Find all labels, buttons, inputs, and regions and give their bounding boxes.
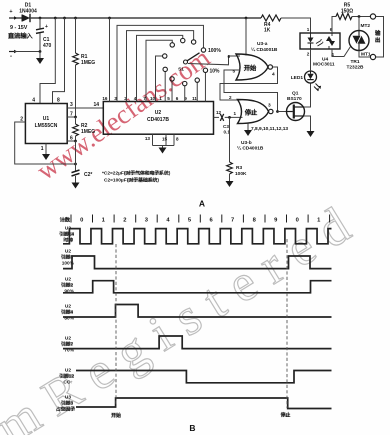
svg-text:引脚4: 引脚4 (61, 309, 74, 316)
wire R5 to output terminal (352, 16, 371, 18)
svg-text:13: 13 (145, 136, 151, 141)
svg-text:U2: U2 (65, 368, 71, 374)
ground U1 pin1 (42, 154, 50, 160)
wire Q1 drain up to LED1 (304, 83, 311, 107)
ground U2 bottom (162, 146, 164, 148)
counter U2 CD4017B box (103, 102, 213, 135)
svg-text:5: 5 (232, 69, 235, 74)
svg-text:开始: 开始 (111, 412, 121, 419)
resistor R2 1MEG (75, 117, 77, 124)
svg-text:直流输入: 直流输入 (8, 32, 34, 40)
svg-text:A: A (199, 199, 205, 209)
svg-text:*C2=22µF: *C2=22µF (102, 171, 124, 177)
wire U2 pin5 to contact G (171, 81, 173, 101)
svg-text:S1: S1 (178, 67, 184, 73)
svg-text:0: 0 (80, 218, 83, 224)
count header label (62, 218, 70, 222)
wire down to triac MT2 (358, 17, 360, 31)
node rail-U2pin16 (108, 17, 111, 20)
svg-text:2: 2 (307, 52, 310, 57)
svg-text:3: 3 (70, 102, 73, 108)
resistor R3 100K (229, 117, 231, 162)
wire U2 pin1 to contact F (164, 72, 166, 102)
timing waveform U2 pin3 100% (63, 256, 332, 269)
svg-text:MT2: MT2 (361, 23, 371, 29)
svg-text:(对于基础系统): (对于基础系统) (127, 177, 159, 184)
wire C3 to stop-gate input node (225, 116, 243, 118)
wire U2 pin7 to switch contact D (146, 40, 172, 101)
svg-text:输: 输 (375, 29, 381, 37)
dashed marker line stop count0 (286, 239, 288, 408)
svg-text:LM555CN: LM555CN (35, 123, 58, 129)
wire U3-b output feedback to U3-a input 5 (224, 70, 278, 112)
svg-text:7: 7 (70, 112, 73, 118)
svg-text:7,8,9,10,11,12,13: 7,8,9,10,11,12,13 (251, 126, 288, 132)
svg-text:出: 出 (375, 36, 381, 44)
LED LED1 (305, 71, 317, 83)
wire U3-a output feedback to U3-b input 2 (220, 67, 278, 100)
node rail-U3a supply (245, 17, 248, 20)
node rail-pin4 (54, 17, 57, 20)
svg-text:¼ CD4001B: ¼ CD4001B (237, 145, 264, 152)
svg-text:4: 4 (272, 72, 275, 78)
svg-text:U3-a: U3-a (257, 41, 268, 47)
svg-text:8: 8 (57, 98, 60, 104)
svg-text:5: 5 (167, 96, 170, 101)
capacitor C2 (see note) (72, 170, 80, 176)
svg-text:1K: 1K (264, 28, 271, 34)
wire U2 pin11 to contact J 10% (204, 73, 206, 102)
svg-text:C2=100µF: C2=100µF (104, 178, 127, 184)
svg-text:11: 11 (192, 96, 197, 101)
wire rail left to D1 (14, 17, 22, 19)
svg-text:U2: U2 (65, 249, 71, 255)
svg-text:1: 1 (307, 27, 310, 32)
timing waveform U3 pin3 duty factor (76, 398, 332, 409)
node C1-neg junction (39, 50, 42, 53)
svg-text:Q1: Q1 (292, 91, 299, 97)
output bracket and label (376, 17, 384, 58)
svg-text:6: 6 (227, 54, 230, 59)
wire negative terminal to C1 bottom (14, 51, 40, 53)
timing waveform U2 pin12 carry out (76, 371, 332, 383)
svg-text:(对于气体和电子系统): (对于气体和电子系统) (124, 170, 171, 177)
capacitor C3 0.1 (220, 114, 223, 121)
svg-text:引脚3: 引脚3 (61, 400, 74, 407)
svg-text:MOC3011: MOC3011 (313, 62, 335, 68)
resistor R5 150ohm (336, 14, 352, 20)
wire rail to U1 pin 8 (53, 18, 65, 104)
ground below C1 (39, 52, 41, 59)
svg-text:R3: R3 (236, 165, 242, 171)
svg-text:¼ CD4001B: ¼ CD4001B (251, 46, 278, 53)
svg-text:U2: U2 (65, 277, 71, 283)
terminal - DC input negative (9, 51, 14, 53)
svg-text:1: 1 (41, 146, 44, 152)
U4 internal triac (326, 36, 335, 46)
ground Q1 source (307, 131, 315, 137)
wire rail to U2 pin 16 (109, 18, 111, 102)
U4 internal LED (308, 38, 314, 43)
wire wiper to U3-a input 6 (188, 56, 240, 65)
node rail-pin8 (63, 17, 66, 20)
wire R4 to U4 pin1 (281, 18, 311, 33)
terminal + DC input positive (9, 17, 14, 19)
svg-text:U3: U3 (65, 395, 71, 401)
svg-text:CD4017B: CD4017B (147, 117, 169, 123)
wire top power rail (31, 17, 261, 19)
wire U2 pin12 to C3 (214, 116, 220, 118)
svg-text:占空因子: 占空因子 (56, 406, 75, 413)
label start below rise (112, 414, 120, 418)
wire U1 pin 6 to node (67, 140, 75, 142)
svg-text:0: 0 (296, 218, 299, 224)
svg-text:-: - (10, 54, 12, 60)
svg-text:U1: U1 (43, 116, 50, 122)
triac TR1 T2322B (349, 31, 369, 51)
svg-text:150Ω: 150Ω (341, 9, 353, 15)
watermark red www.elecfans.com diagonal (31, 42, 215, 186)
count header ticks and numbers (71, 215, 330, 223)
wire rail to U1 pin 4 (40, 18, 55, 104)
svg-text:9 - 15V: 9 - 15V (10, 25, 28, 31)
svg-text:10: 10 (150, 96, 156, 101)
diode D1 1N4004 (22, 15, 30, 22)
svg-text:BS170: BS170 (287, 96, 302, 102)
svg-text:C2*: C2* (84, 172, 92, 178)
wire U1 pin 1 to ground (45, 144, 47, 155)
terminal output bottom (370, 54, 375, 59)
svg-text:引脚12: 引脚12 (59, 373, 74, 380)
svg-text:16: 16 (102, 96, 108, 101)
resistor R1 1MEG (75, 18, 77, 53)
node U3-b output junction (276, 110, 279, 113)
svg-text:8: 8 (176, 137, 179, 142)
svg-text:1: 1 (159, 96, 162, 101)
svg-text:4: 4 (32, 98, 35, 104)
wire U1 pin 3 clock out to U2 pin 14 (67, 107, 103, 109)
wire U1 pin 7 to R1/R2 node (67, 116, 75, 118)
svg-text:T2322B: T2322B (346, 65, 364, 71)
NOR gate U3-b stop (238, 100, 269, 124)
wire U3-b pin7 to ground with pins label (247, 124, 249, 131)
node C3/R3/gate (228, 116, 231, 119)
svg-text:1N4004: 1N4004 (19, 9, 37, 15)
timing waveform U2 pin4 80% (63, 305, 332, 318)
U2 bottom pins 13 15 8 to ground (152, 134, 154, 145)
svg-text:3: 3 (268, 103, 271, 109)
svg-text:停止: 停止 (245, 108, 258, 117)
svg-text:14: 14 (93, 102, 99, 108)
wire U2 pin4 to switch contact C (137, 35, 183, 101)
LED1 light arrows (314, 84, 321, 91)
wire U3-b output to Q1 gate (278, 111, 287, 113)
timing waveform U2 pin2 90% (63, 281, 332, 293)
svg-text:100K: 100K (235, 171, 247, 177)
svg-text:470: 470 (43, 43, 52, 49)
wire U2 pin2 to switch contact B (127, 31, 194, 102)
node pin2-C2 (74, 163, 77, 166)
svg-text:7: 7 (231, 218, 234, 224)
transistor Q1 BS170 (287, 103, 305, 121)
wire rail supply to U3-a top (245, 18, 247, 56)
wire U2 pin3 to switch contact A (117, 25, 203, 101)
svg-text:+: + (45, 24, 48, 30)
switch S1 wiper (184, 60, 188, 64)
U4 internal arrows (316, 41, 323, 47)
switch S1 contact ring (201, 48, 205, 52)
svg-text:开始: 开始 (244, 63, 257, 72)
wire U2 pin10 to switch contact E (156, 56, 163, 101)
capacitor C1 470uF (39, 18, 41, 29)
wire Q1 source to ground (304, 116, 311, 131)
svg-text:+: + (9, 9, 12, 15)
svg-text:2: 2 (229, 95, 232, 100)
svg-text:引脚7: 引脚7 (61, 341, 74, 348)
timing waveform U2 pin7 70% (63, 336, 332, 349)
svg-text:6: 6 (176, 96, 179, 101)
svg-text:U3-b: U3-b (241, 140, 252, 146)
node pin6 (74, 140, 77, 143)
svg-text:MT1: MT1 (361, 52, 371, 58)
NOR gate U3-a start (236, 54, 268, 80)
resistor R4 1K (261, 15, 281, 21)
wire triac MT1 to output terminal (359, 51, 370, 58)
svg-text:U2: U2 (65, 336, 71, 342)
ground below C2 (75, 176, 77, 183)
wire U2 pin9 to contact I (196, 82, 198, 101)
svg-text:停止: 停止 (280, 412, 290, 419)
svg-text:U2: U2 (155, 110, 162, 116)
node R5-MT2 (358, 15, 361, 18)
svg-text:10%: 10% (210, 69, 221, 75)
svg-text:1: 1 (233, 111, 236, 116)
svg-text:CO↑: CO↑ (63, 380, 73, 386)
svg-text:计数: 计数 (60, 216, 71, 224)
wire U4 pin2 down to LED1 (310, 49, 312, 71)
wire U2 pin6 to contact H (184, 86, 186, 102)
terminal output top (370, 14, 375, 19)
node rail-R1 (74, 17, 77, 20)
wire U4 pin6 up to R5 (332, 17, 336, 34)
node rail-C1 (39, 17, 42, 20)
svg-text:15: 15 (162, 137, 168, 142)
node pin7 (74, 116, 77, 119)
op-amp U1 LM555CN timer box (25, 104, 67, 144)
ground below R3 (226, 181, 234, 187)
svg-text:1MEG: 1MEG (81, 60, 95, 66)
svg-text:LED1: LED1 (291, 75, 304, 81)
wire node to C2 (75, 141, 77, 171)
timing waveform U2 pin14 clock (63, 229, 332, 244)
wire U4 pin4 to triac gate (332, 47, 351, 57)
dashed marker line start count2 (115, 244, 117, 406)
svg-text:U2: U2 (65, 304, 71, 310)
svg-text:引脚14: 引脚14 (59, 231, 74, 238)
svg-text:1MEG: 1MEG (81, 129, 95, 135)
svg-text:2: 2 (123, 218, 126, 224)
svg-text:TR1: TR1 (350, 59, 359, 65)
label stop below fall (282, 413, 290, 417)
svg-text:6: 6 (70, 136, 73, 142)
svg-text:100%: 100% (208, 48, 221, 54)
optocoupler U4 MOC3011 box (300, 33, 340, 49)
svg-text:C3: C3 (223, 124, 229, 129)
svg-text:时钟: 时钟 (63, 237, 73, 244)
svg-text:引脚2: 引脚2 (61, 282, 74, 289)
watermark gray UnRegistered diagonal (0, 190, 372, 435)
svg-text:B: B (189, 423, 195, 433)
